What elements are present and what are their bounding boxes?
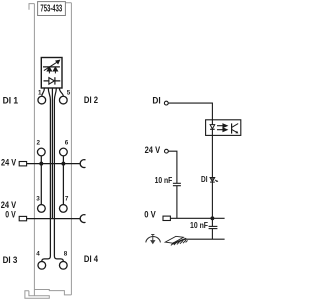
stem terminal 2 xyxy=(40,156,42,164)
svg-text:DI 1: DI 1 xyxy=(3,95,19,105)
svg-text:2: 2 xyxy=(37,140,41,147)
wire LED1 to 0V node xyxy=(211,182,213,218)
24V rail wire xyxy=(27,163,81,165)
link wire 2-3 xyxy=(40,164,42,205)
wire DI3 (box to terminal 4) xyxy=(42,88,51,261)
svg-text:DI: DI xyxy=(201,175,208,184)
terminal 7 xyxy=(59,205,67,213)
svg-text:3: 3 xyxy=(36,196,40,203)
0V rail wire xyxy=(27,218,81,220)
svg-text:24 V: 24 V xyxy=(1,200,17,210)
junction dot terminal2/24V xyxy=(39,162,43,166)
power jumper contact arc 0V xyxy=(80,215,85,223)
wire flare to terminal 1 xyxy=(42,88,45,96)
wire DI4 (box to terminal 8) xyxy=(54,88,63,261)
svg-text:0 V: 0 V xyxy=(144,209,156,219)
photodiode pair symbol inside U1 xyxy=(43,60,60,73)
svg-text:DI 3: DI 3 xyxy=(3,255,18,265)
wire 0V node to cap C2 xyxy=(211,218,213,226)
terminal 1 xyxy=(38,96,46,104)
capacitor C2 xyxy=(209,226,218,228)
phototransistor of optocoupler xyxy=(232,123,239,133)
svg-text:DI 2: DI 2 xyxy=(84,95,98,105)
optocoupler box U2 xyxy=(206,120,241,136)
terminal 5 xyxy=(59,96,67,104)
junction dot terminal6/24V xyxy=(61,162,65,166)
24V terminal circle xyxy=(165,149,169,153)
terminal 2 xyxy=(37,148,45,156)
terminal 3 xyxy=(38,205,46,213)
module outline (gray profile of I/O module) xyxy=(25,3,72,299)
terminal 4 xyxy=(38,261,46,269)
svg-text:5: 5 xyxy=(67,89,71,96)
DI input terminal circle xyxy=(164,101,168,105)
svg-text:8: 8 xyxy=(64,251,68,258)
svg-text:753-433: 753-433 xyxy=(40,4,62,15)
svg-text:10 nF: 10 nF xyxy=(190,220,208,230)
svg-text:0 V: 0 V xyxy=(5,210,16,220)
link wire 6-7 xyxy=(62,164,64,205)
DI wire xyxy=(168,103,212,120)
terminal 6 xyxy=(60,148,68,156)
0V wire xyxy=(170,217,224,219)
terminal 8 xyxy=(59,261,67,269)
svg-text:24 V: 24 V xyxy=(145,145,161,155)
svg-text:24 V: 24 V xyxy=(1,158,17,168)
svg-text:6: 6 xyxy=(65,140,69,147)
svg-text:DI 4: DI 4 xyxy=(84,254,99,264)
0V feed plug xyxy=(19,216,26,220)
stem terminal 6 xyxy=(62,156,64,164)
wire 0V internal (box to 0V rail) xyxy=(51,88,53,219)
chassis line xyxy=(185,238,224,240)
0V feed plug schematic xyxy=(163,216,170,220)
svg-text:7: 7 xyxy=(65,196,69,203)
wire C1 to 0V line xyxy=(176,186,178,219)
wire through U2 xyxy=(211,120,213,136)
svg-text:4: 4 xyxy=(36,251,40,258)
24V feed plug xyxy=(19,162,26,166)
wire flare to terminal 5 xyxy=(59,88,63,96)
label box 753-433 xyxy=(38,2,66,16)
capacitor C1 xyxy=(173,183,181,185)
coupling arrows xyxy=(217,124,227,131)
function box U1 (input circuit icon) xyxy=(41,58,62,89)
earth dome symbol xyxy=(146,235,161,245)
wire C2 to chassis line xyxy=(211,229,213,240)
svg-text:DI: DI xyxy=(152,96,160,106)
wire U2 to LED1 xyxy=(211,135,213,177)
diode symbol inside U1 xyxy=(44,77,61,84)
status LED D1 xyxy=(210,178,218,183)
mounting rail symbol xyxy=(165,236,187,245)
LED of optocoupler xyxy=(210,125,215,130)
24V wire to cap C1 xyxy=(168,151,177,183)
svg-text:1: 1 xyxy=(38,89,42,96)
junction dot 0V node xyxy=(210,216,214,220)
power jumper contact arc 24V xyxy=(80,160,85,168)
svg-text:10 nF: 10 nF xyxy=(155,175,173,185)
